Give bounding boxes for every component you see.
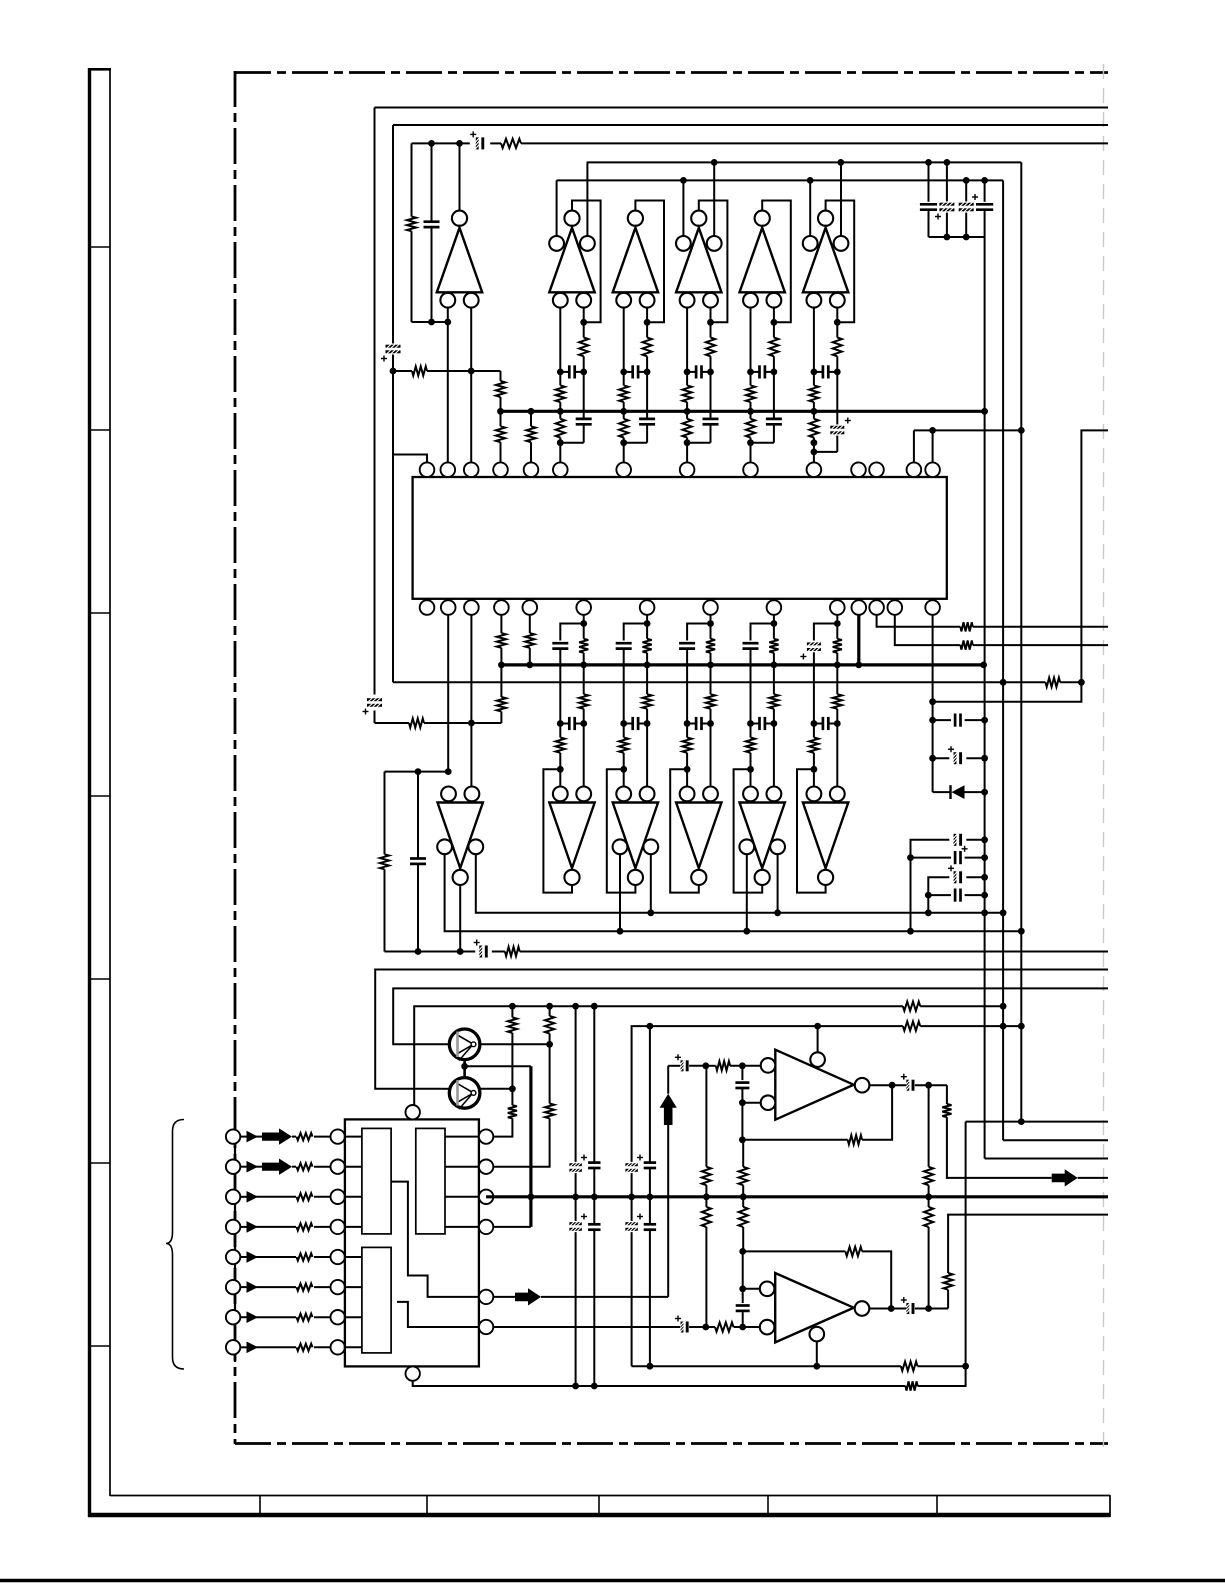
wire net V3 rail with C and R: [412, 142, 470, 144]
junction dot: [644, 662, 651, 669]
wire supply vertical x=594.3: [593, 1006, 595, 1162]
IC1 top pin 11: [851, 462, 866, 477]
resistor R20 (input): [297, 1133, 313, 1140]
junction dot: [620, 369, 627, 376]
input arrowhead: [240, 1226, 246, 1228]
IC2 inner block 2: [416, 1128, 445, 1234]
junction dot: [647, 1194, 654, 1201]
junction dot: [684, 369, 691, 376]
junction dot: [546, 1003, 553, 1010]
wire input: [255, 1316, 296, 1318]
side circle right: [643, 839, 658, 854]
feedback loop wire (lower): [797, 769, 826, 892]
junction dot: [963, 234, 970, 241]
input terminal J3: [226, 1190, 240, 1204]
resistor (right lower): [773, 665, 775, 694]
junction dot: [771, 620, 778, 627]
wire nested corner A to Q2: [393, 988, 1108, 1044]
junction dot: [628, 1194, 635, 1201]
junction dot: [771, 720, 778, 727]
frame tick 6: [88, 1162, 110, 1164]
junction dot: [647, 1363, 654, 1370]
capacitor C21 (series): [588, 1223, 600, 1226]
wire bottom row B (y=1386): [413, 1381, 906, 1386]
wire U3B bottom down: [816, 1341, 818, 1366]
diode D1: [933, 791, 950, 793]
wire U2A apex down: [459, 885, 461, 952]
IC1 top pin 4: [493, 462, 508, 477]
wire to IC2 pin: [314, 1136, 331, 1138]
capacitor C24 (series): [644, 1161, 656, 1164]
capacitor C10 (electrolytic): [933, 757, 950, 759]
junction dot: [509, 1003, 516, 1010]
resistor R24 (input): [297, 1253, 313, 1260]
junction dot: [925, 1305, 932, 1312]
junction dot: [702, 1324, 709, 1331]
title cell divider 1: [259, 1495, 261, 1513]
wire IC1 pin13 up: [913, 430, 915, 462]
main thick bus lower: [486, 1195, 1108, 1198]
junction dot: [702, 1062, 709, 1069]
junction dot: [591, 1383, 598, 1390]
wire to IC2 pin: [314, 1226, 331, 1228]
junction dot: [509, 1085, 516, 1092]
resistor (right upper): [583, 624, 585, 639]
junction dot: [1000, 1003, 1007, 1010]
coupling capacitor (horizontal): [822, 365, 825, 378]
IC2 left pin 4: [331, 1220, 345, 1234]
wire jog to IC1 pin14: [933, 682, 1082, 701]
junction dot: [580, 620, 587, 627]
wire corner to cap line: [624, 624, 647, 641]
junction dot: [684, 720, 691, 727]
resistor (left lower): [686, 402, 688, 419]
wire to input circle 2: [742, 1102, 760, 1104]
IC2 internal stub: [345, 1316, 362, 1318]
wire left base line down to IC1 pin: [623, 308, 625, 386]
junction dot: [528, 1193, 535, 1200]
wire to IC2 pin: [314, 1256, 331, 1258]
capacitor C23 (electrolytic series): [625, 1222, 637, 1225]
wire IC2 pin4 to thick bus: [493, 1226, 531, 1228]
side circle right: [770, 839, 785, 854]
input arrowhead: [240, 1196, 246, 1198]
junction dot: [1018, 1023, 1025, 1030]
wire right base line: [710, 308, 712, 338]
wire pin to corner row: [583, 615, 585, 624]
junction dot: [1018, 427, 1025, 434]
IC2 right pin 4: [479, 1220, 493, 1234]
junction dot: [739, 1248, 746, 1255]
capacitor C5: [928, 162, 930, 201]
op-amp U1E: [755, 211, 770, 226]
capacitor C11 (electrolytic): [911, 840, 950, 858]
wire pin to corner row: [836, 615, 838, 624]
IC2 top pin: [406, 1105, 420, 1119]
IC2 internal stub: [345, 1136, 362, 1138]
IC1 top pin 12: [869, 462, 884, 477]
resistor R6: [530, 411, 532, 426]
wire bias rail B: [557, 179, 1004, 181]
wire side right down: [650, 854, 652, 913]
IC1 bottom pin 4: [494, 600, 509, 615]
IC1 bottom pin 7: [640, 600, 655, 615]
junction dot: [557, 408, 564, 415]
IC2 internal step path B: [397, 1302, 479, 1327]
wire side left down: [746, 854, 748, 931]
junction dot: [834, 662, 841, 669]
coupling capacitor (horizontal, lower): [695, 717, 698, 730]
junction dot: [557, 369, 564, 376]
input terminal J1: [226, 1129, 240, 1143]
junction dot: [771, 319, 778, 326]
wire pin to corner row: [773, 615, 775, 624]
IC1 top pin 5: [524, 462, 539, 477]
resistor R27 (input): [297, 1344, 313, 1351]
resistor (left upper): [809, 385, 818, 402]
IC2 internal step path A: [391, 1182, 479, 1297]
junction dot: [468, 368, 475, 375]
junction dot: [684, 766, 691, 773]
junction dot: [1018, 1118, 1025, 1125]
wire IC1 pin14 up: [932, 430, 934, 462]
wire bias row with resistor R3: [393, 370, 412, 372]
wire U3B output: [869, 1308, 906, 1310]
resistor (left lower): [813, 402, 815, 419]
junction dot: [888, 1305, 895, 1312]
resistor (left lower): [559, 402, 561, 419]
IC1 top pin 6: [553, 462, 568, 477]
junction dot: [739, 1099, 746, 1106]
resistor (left line): [746, 738, 755, 753]
op-amp U2B: [549, 803, 594, 869]
IC1 top pin 3: [464, 462, 479, 477]
wire supply vertical x=649.9: [649, 1026, 651, 1163]
coupling capacitor (horizontal, lower): [631, 717, 634, 730]
wire x=910.5 down: [910, 858, 912, 932]
IC1 bottom pin 8: [703, 600, 718, 615]
capacitor (left line): [616, 642, 632, 645]
op-amp U2F: [803, 803, 848, 869]
junction dot: [580, 662, 587, 669]
wire input: [255, 1196, 296, 1198]
thick bus vertical: [529, 1066, 532, 1227]
junction dot: [813, 1363, 820, 1370]
input terminal J8: [226, 1340, 240, 1354]
junction dot: [981, 909, 988, 916]
junction dot: [834, 620, 841, 627]
junction dot: [415, 948, 422, 955]
U3B bottom circle: [810, 1327, 825, 1342]
feedback loop wire: [762, 201, 791, 323]
coupling capacitor (horizontal, lower): [822, 717, 825, 730]
junction dot: [617, 928, 624, 935]
page cut mark (gray dashed vertical): [1103, 64, 1105, 1452]
frame tick 4: [88, 795, 110, 797]
junction dot: [929, 717, 936, 724]
wire side right down: [777, 854, 779, 913]
wire side right up: [713, 162, 715, 236]
side circle left: [437, 839, 452, 854]
wire Q2 right to chain: [480, 1088, 513, 1090]
IC2 right pin 6: [479, 1320, 493, 1334]
capacitor C9: [933, 719, 951, 721]
resistor (right line): [579, 338, 588, 357]
signal flow arrow (input): [255, 1136, 262, 1138]
junction dot: [526, 662, 533, 669]
junction dot: [739, 1324, 746, 1331]
junction dot: [711, 159, 718, 166]
junction dot: [557, 720, 564, 727]
transistor Q1: [449, 1043, 480, 1045]
coupling capacitor (horizontal): [695, 365, 698, 378]
IC2 left pin 7: [331, 1310, 345, 1324]
junction dot: [963, 177, 970, 184]
resistor R18: [511, 1089, 513, 1105]
wire cap cluster bottom rail: [929, 236, 985, 238]
junction dot: [944, 159, 951, 166]
U3A feedback wire with R22: [742, 1139, 847, 1141]
op-amp U1F: [818, 211, 833, 226]
resistor R27 (U3B input): [715, 1322, 734, 1331]
IC1 bottom pin 13: [888, 600, 903, 615]
page border top cap: [88, 68, 111, 71]
IC1 top pin 1: [420, 462, 435, 477]
junction dot: [929, 755, 936, 762]
capacitor C18 (electrolytic series): [569, 1163, 581, 1166]
resistor pair x=743.2 (bus divider): [742, 1140, 744, 1167]
junction dot: [1000, 679, 1007, 686]
wire right exit y=1121.6: [966, 1121, 1108, 1123]
resistor (left upper): [619, 385, 628, 402]
wire Q link to thick bus corner: [465, 1065, 531, 1067]
wire IC2 out up to U3A input chain: [667, 1125, 669, 1297]
capacitor C15 (U2A): [417, 772, 419, 859]
input terminal J7: [226, 1310, 240, 1324]
capacitor C28 (electrolytic series, U3B input): [681, 1322, 684, 1333]
junction dot: [981, 755, 988, 762]
wire side left up: [556, 180, 558, 236]
resistor R14 (U2A): [384, 772, 386, 855]
junction dot: [428, 319, 435, 326]
resistor R20: [549, 1044, 551, 1103]
resistor pair x=706.4 (bus divider): [705, 1066, 707, 1167]
resistor (right line): [643, 338, 652, 357]
IC2 internal stub: [345, 1256, 362, 1258]
wire supply row y=969.5: [375, 970, 1108, 1089]
title cell divider 2: [426, 1495, 428, 1513]
junction dot: [703, 1193, 710, 1200]
input arrowhead: [240, 1316, 246, 1318]
wire IC1 pin3 bottom down: [470, 615, 472, 787]
resistor (right lower): [836, 665, 838, 694]
IC1 bottom pin 12: [869, 600, 884, 615]
wire long vertical supply A (x=984.6): [984, 237, 986, 1159]
transistor Q2: [449, 1078, 480, 1109]
junction dot: [647, 1023, 654, 1030]
wire branch to IC1 pin1: [393, 455, 427, 463]
junction dot: [747, 369, 754, 376]
op-amp U2C: [613, 803, 658, 869]
IC2 internal stub: [345, 1196, 362, 1198]
wire net row y=682.3: [393, 681, 1003, 683]
capacitor (left line): [743, 642, 759, 645]
resistor R25 (input): [297, 1284, 313, 1291]
U3A input circle 1: [761, 1058, 776, 1073]
wire pin to corner row: [710, 615, 712, 624]
dash-dot border bottom: [235, 1442, 1108, 1445]
IC2 left pin 1: [331, 1129, 345, 1143]
frame tick 3: [88, 612, 110, 614]
resistor R8: [500, 665, 502, 697]
feedback loop wire: [572, 201, 601, 323]
wire net V2 rail: [393, 124, 1108, 126]
IC2 left pin 3: [331, 1190, 345, 1204]
junction dot: [457, 948, 464, 955]
wire vertical from V1 rail: [374, 108, 376, 695]
junction dot: [925, 1082, 932, 1089]
junction dot: [1018, 928, 1025, 935]
junction dot: [1078, 679, 1085, 686]
wire rail y=1026 from corner x=631.6: [632, 1026, 903, 1162]
coupling capacitor (horizontal): [631, 365, 634, 378]
U3A input circle 2: [761, 1095, 776, 1110]
IC2 internal stub: [345, 1166, 362, 1168]
junction dot: [557, 766, 564, 773]
junction dot: [428, 140, 435, 147]
frame tick 2: [88, 429, 110, 431]
input arrowhead: [240, 1286, 246, 1288]
wire right base line: [646, 308, 648, 338]
junction dot: [980, 662, 987, 669]
junction dot: [811, 369, 818, 376]
junction dot: [889, 1082, 896, 1089]
resistor (left line): [809, 738, 818, 753]
IC1 top pin 9: [743, 462, 758, 477]
signal flow arrow (up): [660, 1094, 677, 1125]
junction dot: [684, 408, 691, 415]
ground bus lower row: [385, 951, 476, 953]
wire to left line: [751, 442, 774, 444]
wire right base line: [583, 308, 585, 338]
wire to left line: [687, 442, 710, 444]
wire supply vertical x=575.6: [575, 1006, 577, 1162]
junction dot: [981, 717, 988, 724]
IC1 top pin 2: [441, 462, 456, 477]
title cell divider 4: [767, 1495, 769, 1513]
junction dot: [498, 662, 505, 669]
wire rail y=1006 right part with R16: [594, 1005, 903, 1007]
input terminal J2: [226, 1160, 240, 1174]
junction dot: [591, 1194, 598, 1201]
wire Q1-Q2 link: [463, 1060, 466, 1078]
junction dot: [907, 854, 914, 861]
wire net V1 top rail: [375, 107, 1109, 109]
wire right line to base: [646, 724, 648, 787]
junction dot: [747, 766, 754, 773]
IC1 bottom pin 3: [464, 600, 479, 615]
resistor R7: [500, 615, 502, 633]
resistor R1 (series): [501, 139, 521, 148]
capacitor C6 (electrolytic): [946, 162, 948, 201]
resistor (right upper): [773, 624, 775, 639]
junction dot: [644, 620, 651, 627]
junction dot: [807, 177, 814, 184]
coupling capacitor (horizontal, lower): [758, 717, 761, 730]
resistor R26 (input): [297, 1314, 313, 1321]
IC2 internal stubs right: [445, 1136, 479, 1138]
junction dot: [747, 439, 754, 446]
wire side left down: [619, 854, 621, 931]
signal flow arrow (input): [255, 1166, 262, 1168]
wire U2A left side down: [445, 854, 1022, 931]
title row top line: [110, 1495, 1110, 1497]
junction dot: [811, 439, 818, 446]
capacitor C13 (electrolytic): [928, 877, 949, 895]
solid segment of border at input connectors: [234, 1100, 236, 1362]
capacitor C12: [911, 857, 952, 859]
wire right exit y=1140.2: [1003, 1139, 1108, 1141]
op-amp U3A: [775, 1050, 853, 1120]
capacitor (right lower): [583, 411, 585, 419]
side circle left: [739, 839, 754, 854]
junction dot: [962, 1363, 969, 1370]
IC2 left pin 6: [331, 1280, 345, 1294]
junction dot: [497, 408, 504, 415]
U3A output circle: [855, 1078, 870, 1093]
resistor R17 chain (to IC2 pin1): [511, 1006, 513, 1017]
junction dot: [981, 854, 988, 861]
wire U1A left base to IC1 pin2: [447, 308, 449, 463]
U3B output circle: [855, 1301, 870, 1316]
wire to left line: [624, 442, 647, 444]
input arrowhead: [240, 1346, 246, 1348]
junction dot: [837, 159, 844, 166]
wire input: [255, 1256, 296, 1258]
junction dot: [771, 662, 778, 669]
coupling capacitor (horizontal): [568, 365, 571, 378]
power bus (thick) upper: [501, 410, 985, 413]
wire to left line: [560, 442, 583, 444]
junction dot: [925, 892, 932, 899]
junction dot: [456, 140, 463, 147]
junction dot: [620, 439, 627, 446]
op-amp U2D: [676, 803, 721, 869]
op-amp U1D: [691, 211, 706, 226]
wire U1A output to V3 rail: [459, 143, 461, 210]
junction dot: [981, 836, 988, 843]
wire left base line down to IC1 pin: [559, 308, 561, 386]
resistor (left upper): [746, 385, 755, 402]
page border inner vertical: [109, 69, 111, 1496]
IC1 bottom pin 5: [523, 600, 538, 615]
wire IC1 pin11 stub (thick): [857, 615, 860, 665]
capacitor C2 (electrolytic series): [367, 698, 382, 701]
resistor R9: [529, 615, 531, 633]
input arrowhead: [240, 1166, 246, 1168]
resistor R15 (series): [505, 947, 520, 956]
junction dot: [680, 177, 687, 184]
IC2 internal stub: [345, 1226, 362, 1228]
junction dot: [855, 662, 862, 669]
junction dot: [620, 720, 627, 727]
junction dot: [572, 1383, 579, 1390]
capacitor C19 (electrolytic series): [569, 1222, 581, 1225]
side circle right (input): [834, 236, 849, 251]
junction dot: [684, 439, 691, 446]
wire IC1 pin14 bottom down: [932, 615, 934, 792]
wire right base line: [773, 308, 775, 338]
